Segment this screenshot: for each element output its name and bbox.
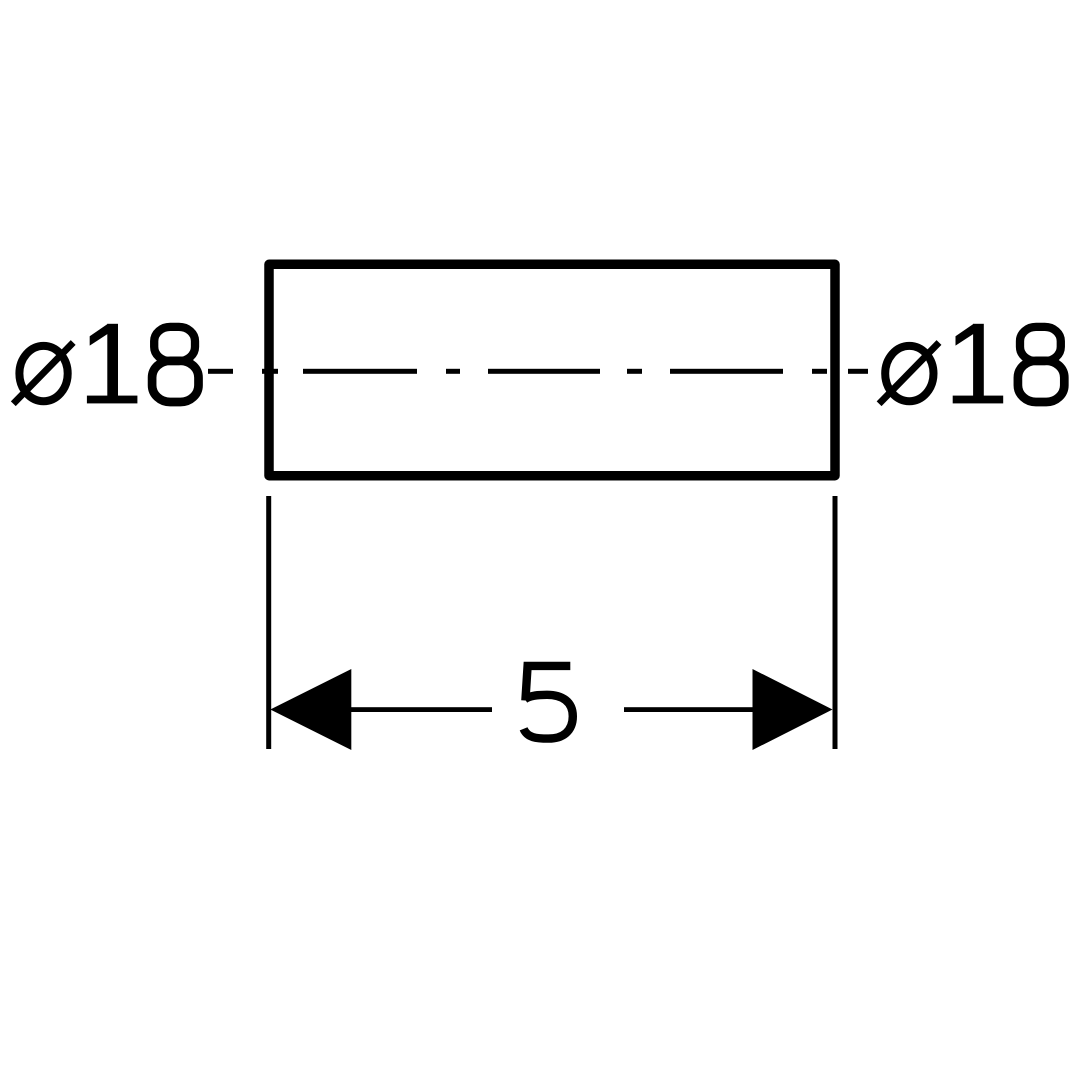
- centerline segment 4 (dot): [446, 369, 460, 374]
- centerline (dash-dot axis): [208, 369, 868, 374]
- dimension line left shaft: [351, 707, 492, 712]
- centerline segment 5 (long dash): [488, 369, 600, 374]
- centerline segment 8 (dot): [812, 369, 827, 374]
- centerline segment 2 (dash crossing left edge): [262, 369, 278, 374]
- centerline segment 9 (right outer dash): [848, 369, 868, 374]
- right extension line: [833, 496, 838, 749]
- dimension line right shaft: [624, 707, 753, 712]
- centerline segment 1 (left outer dash): [208, 369, 233, 374]
- label ø18 right: [879, 324, 1064, 404]
- left arrowhead: [270, 669, 351, 750]
- label ø18 left: [13, 324, 198, 404]
- part body rectangle: [269, 264, 835, 475]
- centerline segment 6 (dot): [627, 369, 642, 374]
- dimension value 5: [524, 666, 573, 739]
- right arrowhead: [753, 669, 833, 750]
- centerline segment 3 (long dash): [303, 369, 417, 374]
- 5: bowl: [524, 695, 573, 739]
- centerline segment 7 (long dash): [670, 369, 783, 374]
- 5: top bar and stem: [525, 666, 570, 701]
- left extension line: [266, 496, 271, 749]
